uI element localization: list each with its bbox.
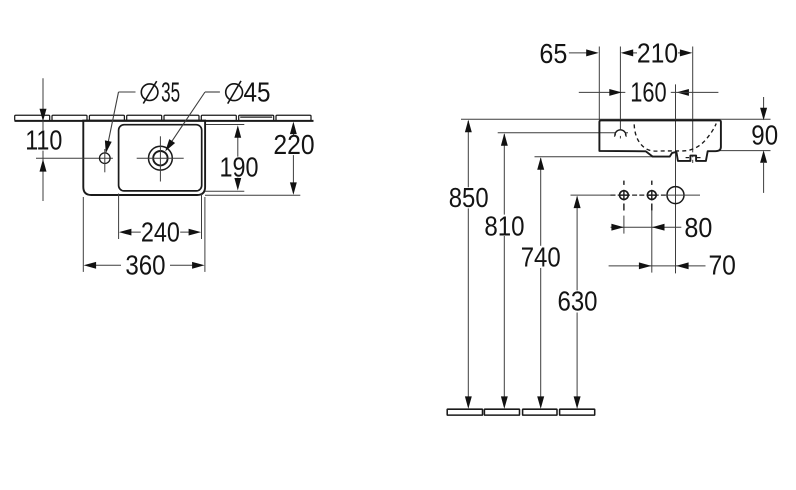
dimension 850 with floor arrow (449, 120, 489, 409)
fixing hole left (619, 181, 629, 211)
svg-text:35: 35 (161, 77, 180, 108)
tap hole Ø35 (top view) (100, 149, 111, 172)
dimension 210 (621, 38, 693, 69)
dimension 740 with floor arrow (521, 157, 561, 409)
svg-text:45: 45 (244, 77, 271, 108)
dimension 110 (25, 78, 62, 201)
svg-text:220: 220 (273, 129, 314, 160)
dimension 220 (205, 122, 315, 196)
reference line tap 810 (498, 132, 628, 134)
dimension 160 (579, 77, 719, 108)
extension line fixing hole left short (623, 216, 625, 234)
extension line drain centre (692, 47, 694, 164)
reference line fixing holes 630 (571, 194, 667, 196)
reference line rim 850 (461, 118, 771, 120)
svg-text:210: 210 (637, 38, 678, 69)
svg-text:80: 80 (684, 212, 712, 243)
extension line fixing hole right long (651, 210, 653, 273)
overflow hole (666, 187, 700, 204)
label Ø35 (141, 77, 180, 108)
svg-text:110: 110 (25, 125, 62, 156)
leader to Ø35 label (105, 92, 136, 153)
dimension 360 (83, 197, 205, 281)
dimension 80 (611, 212, 713, 243)
floor tile strip (447, 409, 594, 415)
waste hole Ø45 (top view) (137, 136, 184, 181)
basin side profile (599, 120, 721, 160)
centre line through tap hole (36, 157, 113, 159)
svg-text:70: 70 (708, 250, 736, 281)
dimension 65 (539, 38, 598, 69)
svg-text:360: 360 (125, 250, 165, 281)
wall line (top view) (15, 120, 314, 122)
svg-text:850: 850 (449, 182, 489, 213)
tap hole (side view) (614, 130, 626, 139)
hidden drain dashes (686, 157, 701, 159)
svg-text:630: 630 (558, 286, 598, 317)
svg-text:810: 810 (484, 211, 524, 242)
svg-text:65: 65 (539, 38, 567, 69)
svg-text:90: 90 (751, 120, 778, 151)
svg-text:740: 740 (521, 241, 561, 272)
extension line overflow centre (675, 84, 677, 273)
dimension 90 (751, 97, 778, 193)
extension line basin left edge (598, 47, 600, 121)
hidden bowl outline dashed (634, 124, 716, 152)
dimension 190 (205, 125, 259, 192)
dimension 810 with floor arrow (484, 133, 524, 409)
reference line body 740 (535, 156, 659, 158)
svg-text:240: 240 (141, 217, 180, 248)
svg-text:190: 190 (220, 152, 259, 183)
svg-text:160: 160 (630, 77, 666, 108)
wall tile strip (top view) (15, 115, 311, 120)
dimension 630 with floor arrow (558, 196, 598, 409)
dimension 70 (609, 250, 736, 281)
leader to Ø45 label (165, 92, 220, 151)
inner bowl (top view) (119, 125, 202, 191)
fixing hole right (647, 181, 657, 211)
basin outer rim (top view) (83, 121, 205, 195)
reference line basin bottom front (717, 150, 771, 152)
extension line tap hole centre (619, 47, 621, 130)
dimension 240 (119, 194, 202, 248)
label Ø45 (226, 77, 271, 108)
